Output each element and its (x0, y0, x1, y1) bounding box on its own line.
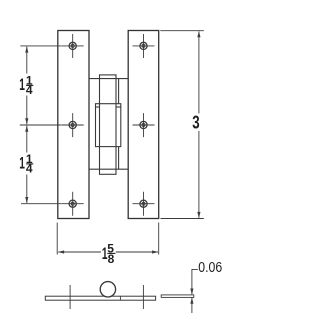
extension line hole row 2 (20, 124, 62, 126)
label 1-1/4 upper (19, 74, 33, 98)
svg-text:1: 1 (19, 153, 25, 172)
extension line hole row 1 (20, 45, 61, 47)
middle knuckle (96, 104, 121, 147)
svg-text:8: 8 (108, 252, 115, 266)
screw hole bottom-left (62, 192, 84, 216)
barrel (pin sleeve) (100, 75, 117, 174)
right leaf (128, 31, 159, 219)
svg-text:4: 4 (26, 83, 33, 97)
screw hole middle-right (133, 113, 155, 137)
left leaf (58, 31, 89, 219)
screw hole top-left (62, 34, 84, 58)
knuckle joint line right (116, 106, 121, 108)
extension line bottom width left (56, 223, 58, 255)
dimension line 1-1/4 lower (25, 126, 28, 204)
leader line 0.06 (190, 269, 198, 313)
screw hole middle-left (62, 113, 84, 137)
side view leaf edge tick (119, 296, 121, 300)
side view barrel circle (100, 282, 115, 297)
side view leaf bar (45, 296, 155, 300)
svg-text:0.06: 0.06 (198, 259, 222, 275)
dimension line 3 (197, 31, 200, 218)
svg-text:3: 3 (192, 112, 199, 133)
svg-text:1: 1 (19, 74, 25, 93)
extension line top right (160, 30, 204, 32)
dimension line 1-5/8 (58, 250, 158, 253)
knuckle edge line lower (118, 147, 120, 170)
side view centerline left (69, 285, 71, 309)
label 1-1/4 lower (19, 152, 33, 176)
extension line hole row 3 (21, 203, 62, 205)
side view swaged leaf strip (161, 295, 194, 298)
knuckle joint line left (96, 106, 100, 108)
web top edge (89, 78, 128, 80)
label 1-5/8 (102, 242, 116, 266)
svg-text:4: 4 (26, 162, 33, 176)
web bottom edge (89, 168, 128, 170)
screw hole bottom-right (133, 192, 155, 216)
dimension line 1-1/4 upper (25, 46, 28, 124)
extension line bottom right (161, 218, 204, 220)
screw hole top-right (133, 34, 155, 58)
side view centerline right (142, 285, 144, 309)
extension line bottom width right (158, 223, 160, 255)
knuckle edge line upper (118, 79, 120, 104)
